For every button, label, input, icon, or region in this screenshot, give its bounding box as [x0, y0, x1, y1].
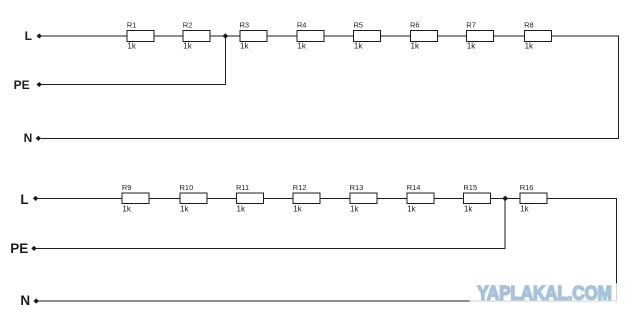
wire R6 to R7 [437, 35, 466, 37]
svg-text:R7: R7 [466, 21, 476, 30]
svg-text:1k: 1k [180, 204, 189, 213]
svg-text:PE: PE [14, 78, 30, 92]
terminal node L (top circuit) [37, 33, 42, 38]
wire PE horizontal (top circuit) [42, 84, 226, 86]
resistor R9 [122, 193, 149, 204]
svg-text:N: N [24, 131, 33, 145]
wire PE horizontal (bottom circuit) [36, 247, 505, 249]
wire R8 to right edge [551, 35, 618, 37]
wire R11 to R12 [263, 197, 293, 199]
svg-text:1k: 1k [127, 42, 136, 51]
wire R7 to R8 [494, 35, 525, 37]
wire R2 to R3 [210, 35, 240, 37]
wire L terminal to R9 [38, 197, 122, 199]
watermark background box [470, 283, 618, 302]
resistor R7 [467, 31, 494, 42]
svg-text:R12: R12 [293, 183, 307, 192]
resistor R3 [240, 31, 267, 42]
svg-text:1k: 1k [407, 204, 416, 213]
svg-text:R15: R15 [463, 183, 477, 192]
wire R9 to R10 [149, 197, 180, 199]
svg-text:R6: R6 [410, 21, 420, 30]
svg-text:R8: R8 [524, 21, 534, 30]
svg-text:R4: R4 [297, 21, 307, 30]
svg-text:PE: PE [10, 241, 28, 256]
terminal node PE (top circuit) [37, 82, 42, 87]
resistor R8 [524, 31, 551, 42]
wire R12 to R13 [320, 197, 350, 199]
svg-text:1k: 1k [464, 204, 473, 213]
resistor R10 [180, 193, 207, 204]
wire N horizontal (top circuit) [41, 137, 619, 139]
wire N horizontal (bottom circuit) [39, 300, 618, 302]
svg-text:1k: 1k [354, 42, 363, 51]
junction node (PE tap, bottom circuit) [502, 196, 508, 202]
resistor R4 [297, 31, 324, 42]
svg-text:1k: 1k [525, 42, 534, 51]
resistor R6 [410, 31, 437, 42]
svg-text:R10: R10 [180, 183, 194, 192]
svg-text:R11: R11 [236, 183, 249, 192]
terminal node PE (bottom circuit) [31, 246, 36, 251]
svg-text:R13: R13 [350, 183, 364, 192]
wire R3 to R4 [267, 35, 297, 37]
svg-text:1k: 1k [293, 204, 302, 213]
wire PE vertical to junction (bottom circuit) [504, 198, 506, 249]
svg-text:R2: R2 [183, 21, 193, 30]
resistor R15 [464, 193, 491, 204]
svg-text:1k: 1k [520, 204, 529, 213]
resistor R5 [354, 31, 381, 42]
resistor R11 [236, 193, 263, 204]
wire R10 to R11 [207, 197, 237, 199]
wire R15 to R16 [491, 197, 520, 199]
terminal node N (top circuit) [36, 136, 41, 141]
svg-text:R1: R1 [127, 21, 137, 30]
svg-text:R5: R5 [353, 21, 363, 30]
junction node (PE tap, top circuit) [222, 33, 228, 39]
svg-text:1k: 1k [122, 204, 131, 213]
wire L terminal to R1 [42, 35, 128, 37]
resistor R12 [293, 193, 320, 204]
svg-text:1k: 1k [240, 42, 249, 51]
svg-text:R14: R14 [407, 183, 421, 192]
svg-text:L: L [25, 29, 32, 43]
resistor R13 [350, 193, 377, 204]
resistor R14 [407, 193, 434, 204]
svg-text:1k: 1k [183, 42, 192, 51]
resistor R1 [127, 31, 154, 42]
resistor R16 [520, 193, 547, 204]
svg-text:1k: 1k [467, 42, 476, 51]
svg-text:1k: 1k [411, 42, 420, 51]
wire R5 to R6 [381, 35, 411, 37]
terminal node L (bottom circuit) [33, 196, 38, 201]
svg-text:1k: 1k [237, 204, 246, 213]
svg-text:R9: R9 [122, 183, 132, 192]
svg-text:YAPLAKAL.COM: YAPLAKAL.COM [477, 282, 612, 304]
svg-text:L: L [20, 192, 28, 207]
svg-text:R16: R16 [520, 183, 534, 192]
svg-text:R3: R3 [240, 21, 250, 30]
terminal node N (bottom circuit) [34, 298, 39, 303]
wire PE vertical to junction (top circuit) [224, 36, 226, 85]
wire R16 to right edge [547, 197, 617, 199]
wire R13 to R14 [377, 197, 407, 199]
wire right vertical (bottom circuit) [616, 198, 618, 302]
wire right vertical (top circuit) [618, 36, 620, 139]
svg-text:1k: 1k [350, 204, 359, 213]
svg-text:N: N [20, 293, 30, 308]
wire R4 to R5 [324, 35, 354, 37]
resistor R2 [183, 31, 210, 42]
wire R1 to R2 [154, 35, 183, 37]
wire R14 to R15 [434, 197, 464, 199]
svg-text:1k: 1k [297, 42, 306, 51]
